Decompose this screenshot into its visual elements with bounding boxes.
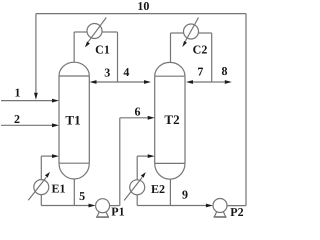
- wire E1 riser: [40, 156, 42, 180]
- arrow T1 bottoms into P1: [89, 204, 96, 208]
- wire T2 vapor riser: [170, 33, 172, 62]
- svg-text:C1: C1: [95, 42, 110, 56]
- pump P2 circle: [213, 199, 227, 213]
- wire C2 inlet: [171, 32, 184, 34]
- arrow stream 1 into T1: [52, 99, 59, 103]
- reboiler E1 circle: [34, 180, 49, 195]
- svg-text:E1: E1: [51, 181, 65, 195]
- arrow E2 diagonal head: [141, 172, 146, 178]
- svg-text:7: 7: [197, 65, 203, 79]
- wire reflux into T2 top: [193, 81, 212, 83]
- condenser C1 circle: [87, 24, 102, 39]
- arrow stream 8 tip: [225, 80, 232, 84]
- svg-text:9: 9: [182, 188, 188, 202]
- wire T2 bottoms downcomer: [169, 179, 171, 206]
- wire stream 8 product: [212, 81, 225, 83]
- wire stream 6 into T2: [120, 117, 148, 119]
- svg-text:P1: P1: [111, 204, 124, 218]
- column T1 bottom head: [59, 163, 89, 179]
- wire top recycle line 10: [36, 13, 246, 15]
- arrow E2 return into T2: [148, 154, 155, 158]
- wire E2 return into T2: [137, 155, 148, 157]
- arrow recycle joins stream 1: [34, 93, 38, 100]
- svg-text:4: 4: [123, 65, 129, 79]
- wire stream 1 feed: [1, 100, 53, 102]
- column T2 bottom head: [155, 163, 185, 179]
- arrow E1 diagonal head: [45, 172, 50, 178]
- wire C1 outlet: [102, 31, 118, 33]
- arrow reflux into T2: [186, 80, 193, 84]
- pump P1 feet: [97, 212, 108, 217]
- column T2 top head: [155, 62, 185, 76]
- wire C1 inlet: [74, 31, 87, 33]
- arrow E1 return into T1: [52, 154, 59, 158]
- reboiler E2 diagonal: [124, 177, 142, 200]
- wire E1 bottom stub: [40, 195, 42, 206]
- wire stream 4 to T2: [118, 81, 145, 83]
- arrow reflux into T1: [90, 80, 97, 84]
- svg-text:T1: T1: [65, 112, 80, 127]
- condenser C2 diagonal: [184, 18, 198, 44]
- arrow stream 4 tip: [144, 80, 151, 84]
- wire T2 bottoms run to P2: [137, 205, 206, 207]
- wire right recycle riser: [245, 14, 247, 206]
- wire C2 downpipe: [211, 33, 213, 82]
- column T1 top head: [59, 62, 89, 76]
- svg-text:T2: T2: [164, 112, 179, 127]
- wire E1 return into T1: [41, 155, 52, 157]
- arrow C1 diagonal head: [85, 42, 90, 48]
- svg-text:5: 5: [79, 189, 85, 203]
- svg-text:E2: E2: [151, 182, 165, 196]
- wire T1 vapor riser: [73, 32, 75, 62]
- arrow stream 2 into T1: [52, 123, 59, 127]
- wire C1 downpipe: [117, 32, 119, 82]
- column T1 shell: [59, 76, 89, 163]
- svg-text:P2: P2: [230, 205, 243, 219]
- wire E2 riser: [136, 156, 138, 180]
- arrow stream 6 into T2: [148, 116, 155, 120]
- column T2 shell: [155, 76, 185, 163]
- svg-text:3: 3: [104, 65, 110, 79]
- condenser C2 circle: [184, 24, 199, 39]
- wire E2 bottom stub: [136, 195, 138, 206]
- wire recycle down-drop into stream 1: [35, 14, 37, 94]
- wire P2 discharge: [227, 205, 246, 207]
- svg-text:6: 6: [134, 105, 140, 119]
- arrow T2 bottoms into P2: [206, 204, 213, 208]
- reboiler E1 diagonal: [28, 177, 46, 200]
- svg-text:1: 1: [15, 85, 21, 99]
- pump P1 circle: [96, 199, 110, 213]
- wire T1 bottoms run to P1: [41, 205, 89, 207]
- wire T1 bottoms downcomer: [73, 179, 75, 206]
- wire P1 riser: [119, 118, 121, 206]
- condenser C1 diagonal: [88, 18, 107, 43]
- svg-text:C2: C2: [193, 43, 208, 57]
- svg-text:2: 2: [14, 112, 20, 126]
- wire P1 discharge: [110, 205, 120, 207]
- wire C2 outlet: [199, 32, 212, 34]
- svg-text:8: 8: [222, 64, 228, 78]
- reboiler E2 circle: [130, 180, 145, 195]
- arrow C2 diagonal head: [182, 41, 187, 47]
- svg-text:10: 10: [137, 0, 149, 13]
- wire reflux into T1 top: [96, 81, 118, 83]
- pump P2 feet: [214, 212, 225, 217]
- wire stream 2 feed: [1, 124, 53, 126]
